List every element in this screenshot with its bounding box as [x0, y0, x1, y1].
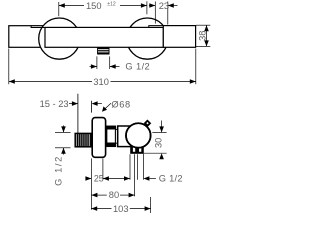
- svg-text:80: 80: [109, 190, 119, 200]
- valve body circle fill: [126, 123, 151, 148]
- outlet nipple below bar (hatched thread): [97, 47, 109, 54]
- dimension 38 (vertical, right): [196, 25, 210, 46]
- dimension 150 +/-12: [59, 1, 147, 16]
- escutcheon right circle: [127, 18, 168, 59]
- dimension 23: [149, 1, 178, 25]
- svg-text:310: 310: [93, 77, 109, 87]
- escutcheon side view: [92, 118, 105, 158]
- main bar body: [45, 27, 163, 47]
- escutcheon face extension line: [91, 101, 93, 113]
- dimension 30 (vertical, right of valve): [144, 121, 167, 160]
- dimension G 1/2 hose outlet (bottom): [124, 174, 183, 184]
- left handle cap: [9, 26, 44, 48]
- dimension 80: [91, 190, 134, 200]
- right handle cap: [163, 26, 195, 48]
- wall line: [77, 94, 79, 133]
- hose outlet below circle: [130, 147, 144, 154]
- dimension G 1/2 outlet (top view): [90, 56, 151, 71]
- escutcheon left circle: [39, 18, 80, 59]
- dimension G 1/2 wall thread (left, rotated): [53, 125, 70, 185]
- extension lines below outlet: [129, 154, 131, 180]
- neck: [116, 129, 118, 143]
- svg-text:103: 103: [113, 204, 129, 214]
- valve body circle arc over outlet: [126, 123, 151, 148]
- svg-text:±12: ±12: [107, 2, 116, 8]
- valve housing: [118, 126, 131, 147]
- svg-text:G 1/2: G 1/2: [53, 155, 63, 186]
- safety nub top-right: [145, 121, 150, 126]
- svg-text:38: 38: [198, 31, 208, 41]
- svg-text:30: 30: [154, 138, 164, 148]
- left cap notch: [31, 25, 45, 27]
- dimension 25: [85, 174, 130, 184]
- svg-text:15 - 23: 15 - 23: [40, 99, 69, 109]
- dimension 15-23: [40, 99, 78, 109]
- svg-text:25: 25: [94, 174, 104, 184]
- svg-text:150: 150: [86, 1, 102, 11]
- svg-text:23: 23: [159, 1, 169, 11]
- dimension 103: [91, 197, 150, 214]
- svg-text:G 1/2: G 1/2: [159, 174, 183, 184]
- extension lines below escutcheon: [90, 158, 92, 209]
- label O68 with leader arrow: [92, 99, 131, 112]
- dimension 310: [9, 49, 196, 87]
- right collar step: [149, 26, 164, 28]
- wall thread (hatched) side view: [75, 133, 91, 146]
- union nut side view: [106, 126, 116, 147]
- svg-text:Ø68: Ø68: [111, 99, 130, 109]
- svg-text:G 1/2: G 1/2: [125, 62, 150, 72]
